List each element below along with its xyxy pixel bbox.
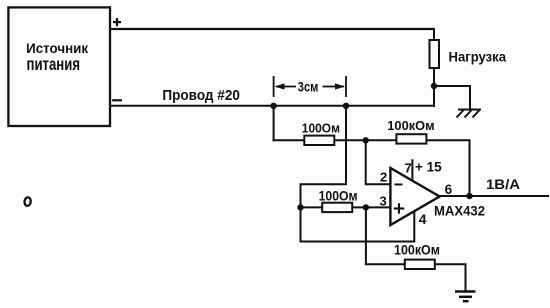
svg-text:Нагрузка: Нагрузка (449, 50, 507, 65)
wire load drop (433, 28, 435, 41)
svg-text:100кОм: 100кОм (387, 118, 434, 133)
op-amp plus sign (394, 207, 404, 209)
node output junction (466, 193, 472, 199)
wire to chassis ground (434, 86, 470, 110)
svg-text:3см: 3см (298, 80, 319, 95)
wire row1 (273, 139, 471, 141)
power supply box (8, 7, 110, 126)
stray mark o (24, 197, 31, 206)
node load-ground junction (431, 83, 437, 89)
svg-text:Провод #20: Провод #20 (162, 88, 240, 104)
wire row2 to pin3 (301, 206, 391, 208)
dimension arrow right (323, 86, 345, 88)
op-amp U1 MAX432 (390, 168, 439, 225)
wire tap A drop (273, 106, 275, 141)
svg-text:100Ом: 100Ом (319, 188, 358, 203)
resistor 100кОм ground (405, 260, 435, 269)
wire feedback down to output (469, 140, 471, 196)
dimension arrow left (276, 86, 296, 88)
svg-text:питания: питания (27, 54, 81, 74)
svg-text:6: 6 (445, 182, 453, 197)
node row2-left (297, 204, 303, 210)
earth ground (455, 292, 476, 302)
wire load bottom (433, 68, 435, 107)
svg-text:2: 2 (380, 169, 387, 184)
plus terminal label (113, 18, 121, 26)
resistor 100 Ом (R1) (304, 136, 334, 145)
resistor Нагрузка (430, 40, 440, 68)
wire tap B to lower node (301, 106, 347, 207)
pin 7 stub (411, 159, 413, 181)
node tap A (270, 103, 276, 109)
svg-text:100кОм: 100кОм (394, 243, 440, 258)
minus terminal label (112, 99, 122, 101)
node row1-junction (363, 137, 369, 143)
dimension 3cm ticks (273, 76, 275, 97)
chassis ground (457, 110, 482, 118)
svg-text:4: 4 (419, 211, 427, 227)
wire top rail (109, 28, 435, 30)
svg-text:7: 7 (405, 161, 412, 176)
wire to lower 100kOm (366, 207, 466, 291)
wire bottom rail (shunt wire) (109, 105, 435, 107)
resistor 100 Ом (R2) (322, 203, 352, 212)
svg-text:3: 3 (380, 194, 387, 209)
svg-text:+ 15: + 15 (415, 160, 442, 175)
svg-text:MAX432: MAX432 (434, 204, 485, 219)
svg-text:100Ом: 100Ом (302, 120, 340, 135)
svg-text:1В/А: 1В/А (486, 176, 520, 192)
op-amp minus sign (395, 184, 403, 186)
node tap B (343, 103, 349, 109)
wire output (440, 195, 549, 197)
node row2-right (363, 204, 369, 210)
wire pin4 path (301, 207, 415, 241)
resistor 100кОм feedback (396, 134, 426, 143)
wire to pin2 (366, 140, 391, 184)
